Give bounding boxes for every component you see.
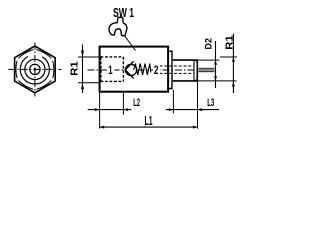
stud tip chamfer top [195, 60, 197, 62]
collar [168, 51, 172, 88]
bore hidden end [122, 57, 124, 82]
stud tip chamfer bottom [195, 79, 197, 81]
L3 ext right / stud end ext [197, 81, 199, 129]
bore hidden bottom [101, 80, 124, 82]
stud thread runout line [193, 60, 195, 81]
svg-text:D2: D2 [203, 38, 213, 49]
R1 right dimension line [232, 34, 234, 94]
svg-text:L2: L2 [133, 97, 140, 109]
L1 dimension line [100, 126, 198, 128]
svg-text:R1: R1 [70, 61, 81, 76]
check valve seat [125, 61, 133, 78]
L2 ext left / body edge ext [99, 92, 101, 129]
svg-text:1: 1 [108, 63, 113, 77]
bore hidden left dashes [100, 57, 102, 82]
dash after spring [151, 69, 153, 71]
bore hidden top [101, 56, 124, 58]
R1 left ext bottom [78, 82, 100, 84]
svg-text:R1: R1 [224, 35, 235, 50]
R1 left arrow top [81, 51, 84, 58]
drill passage hidden bottom [160, 72, 195, 74]
svg-text:L1: L1 [145, 113, 153, 128]
thread major diameter arc (3/4 circle) [20, 57, 49, 85]
R1 left dimension line [82, 45, 84, 94]
L2 ext right [122, 92, 124, 115]
R1 left arrow bottom [81, 83, 84, 90]
D2 arrow top [214, 60, 217, 65]
svg-text:L3: L3 [207, 97, 214, 109]
L3 ext left [172, 90, 174, 114]
L1 arrow right [193, 126, 198, 129]
bore circle [30, 64, 40, 74]
L3 arrow left [169, 108, 174, 111]
drill passage hidden top [160, 65, 195, 67]
R1 right arrow top [232, 57, 235, 62]
D2 dimension line [215, 41, 217, 88]
thread minor circle [25, 59, 45, 79]
threaded stud outline [173, 60, 197, 81]
hex vertical centerline [34, 43, 36, 97]
centerline tip segment [199, 69, 215, 71]
wrench icon [109, 17, 127, 36]
svg-text:SW 1: SW 1 [113, 5, 134, 20]
hex head outline (end view) [15, 46, 56, 93]
spring [134, 64, 151, 76]
tip passage hidden top [199, 67, 215, 69]
L2 arrow right [123, 108, 128, 111]
D2 ext top [198, 59, 220, 61]
R1 left ext top [78, 56, 100, 58]
R1 right arrow bottom [232, 82, 235, 87]
center dot [34, 68, 37, 71]
L3 dimension line [166, 109, 219, 111]
svg-text:2: 2 [154, 63, 159, 77]
L2 dimension line [88, 109, 132, 111]
check valve ball circle [125, 64, 136, 75]
R1 right ext bottom [198, 80, 237, 82]
hex horizontal centerline [8, 68, 61, 70]
L3 arrow right [198, 108, 203, 111]
L1 arrow left [100, 126, 105, 129]
main centerline [88, 69, 198, 71]
valve body outline [100, 47, 169, 92]
port label 1 backing [107, 64, 114, 76]
D2 arrow bottom [214, 76, 217, 81]
R1 right ext top [220, 56, 237, 58]
wrench leader line [124, 35, 136, 51]
L2 arrow left [95, 108, 100, 111]
tip passage hidden bottom [199, 71, 215, 73]
port label 2 backing [153, 64, 160, 76]
hex chamfer arcs [16, 50, 54, 90]
